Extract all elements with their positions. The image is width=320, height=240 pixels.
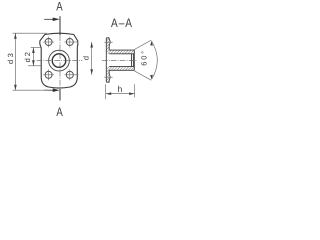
svg-text:h: h [118, 84, 123, 94]
svg-text:d: d [81, 56, 90, 60]
svg-text:A–A: A–A [111, 16, 133, 30]
svg-text:A: A [56, 105, 63, 119]
svg-text:d3: d3 [6, 51, 15, 64]
svg-text:A: A [56, 0, 63, 13]
svg-text:d2: d2 [23, 50, 32, 62]
svg-text:60°: 60° [139, 49, 148, 66]
